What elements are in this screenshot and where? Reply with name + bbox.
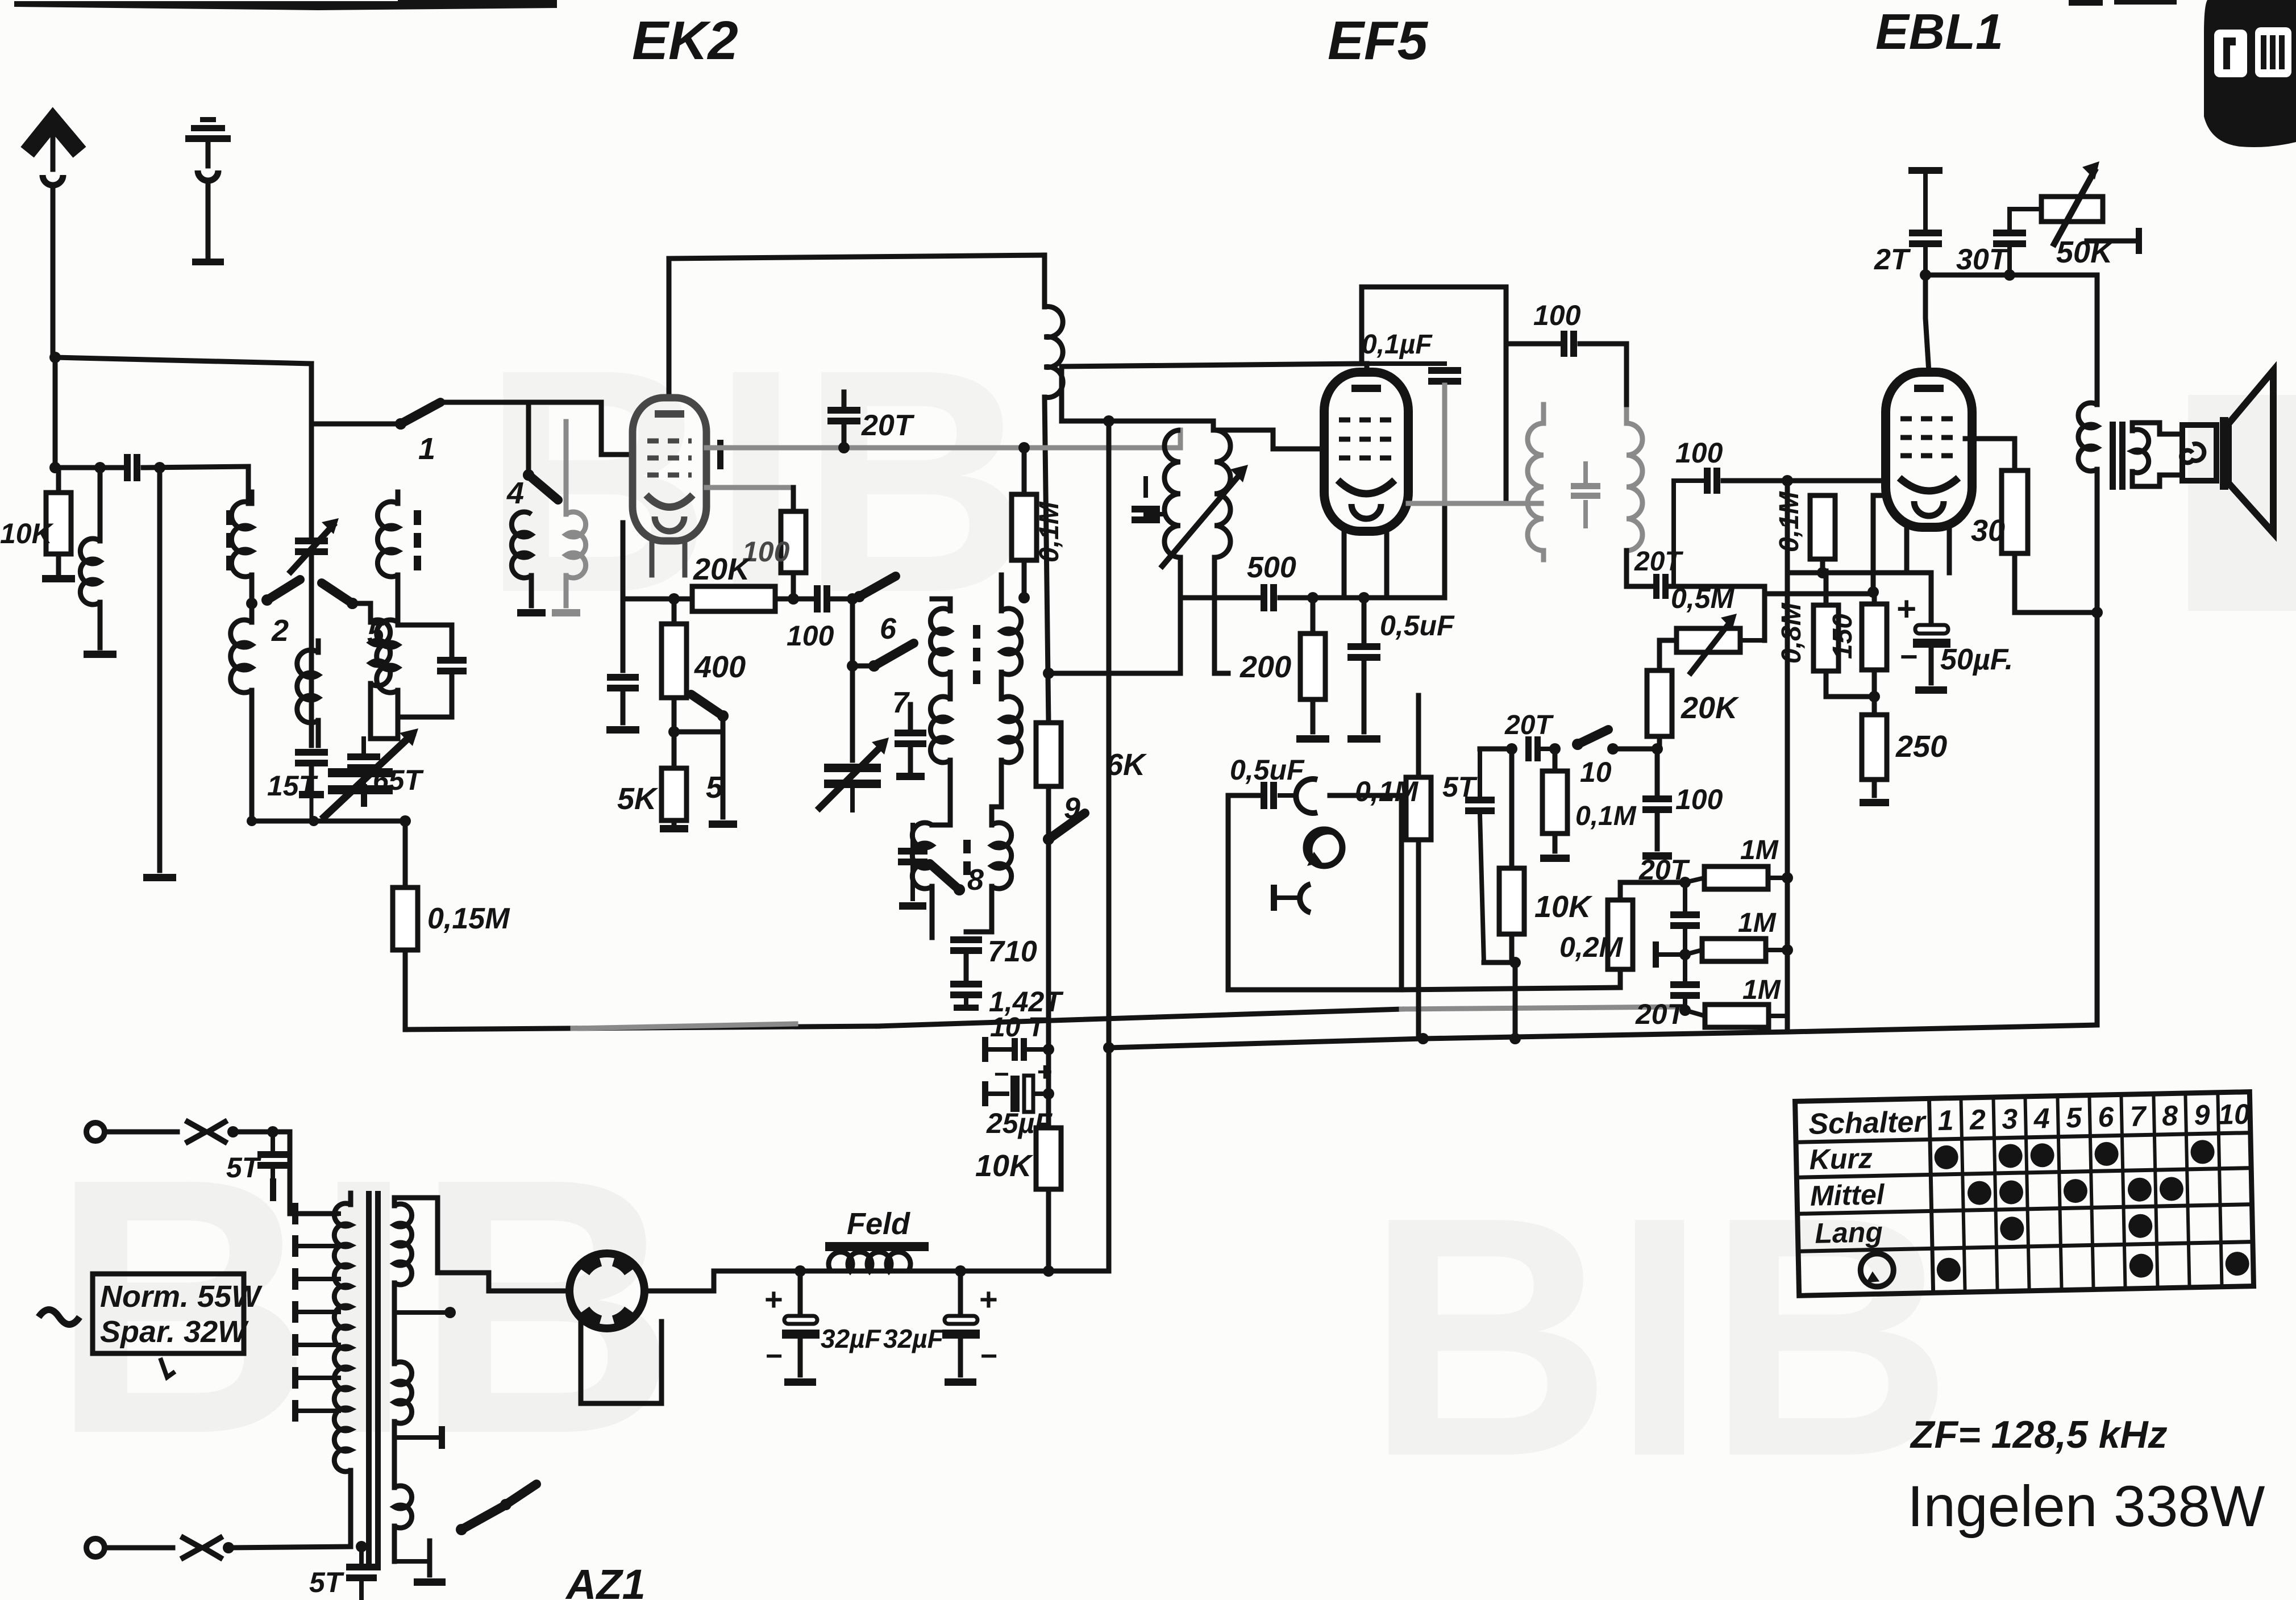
capacitor 32uF b	[958, 1271, 963, 1314]
transformer secondary	[394, 1204, 412, 1285]
coil L2 lower	[249, 603, 255, 622]
node IFT1 avc	[1043, 668, 1054, 679]
svg-text:710: 710	[988, 935, 1037, 968]
svg-text:10K: 10K	[1534, 890, 1593, 924]
capacitor 5T	[1465, 797, 1495, 803]
svg-text:1M: 1M	[1738, 908, 1777, 938]
svg-text:−: −	[993, 1059, 1009, 1089]
capacitor 20T agc2	[1670, 981, 1700, 988]
resistor 0,1M ebl	[1810, 495, 1835, 559]
svg-text:0,1M: 0,1M	[1575, 801, 1637, 831]
BIB publisher logo stamp	[2204, 0, 2296, 147]
osc coil left col	[932, 599, 950, 611]
tube AZ1	[569, 1253, 644, 1328]
resistor 30	[2002, 470, 2028, 553]
svg-text:Lang: Lang	[1815, 1216, 1883, 1249]
svg-text:5K: 5K	[617, 782, 659, 816]
capacitor 500	[1261, 584, 1267, 611]
coil L1 antenna shunt	[98, 468, 103, 541]
mains switch upper	[185, 1120, 206, 1143]
svg-text:10K: 10K	[975, 1149, 1034, 1183]
IFT1 coil primary	[1178, 430, 1183, 448]
resistor 0,15M	[403, 821, 408, 888]
capacitor 2T	[1908, 167, 1943, 174]
svg-text:4: 4	[2033, 1102, 2050, 1135]
svg-text:0,8M: 0,8M	[1777, 602, 1807, 664]
svg-text:20K: 20K	[693, 552, 752, 586]
svg-text:4: 4	[506, 476, 524, 510]
AZ1 filament loop	[581, 1322, 662, 1403]
wire V1b drop	[1062, 366, 1213, 421]
svg-text:8: 8	[967, 864, 984, 897]
scan border artifact top edge	[14, 1, 557, 10]
svg-text:400: 400	[694, 650, 746, 684]
speaker	[2220, 417, 2228, 490]
resistor 1M c	[1685, 1010, 1705, 1016]
svg-text:Spar. 32W: Spar. 32W	[100, 1315, 249, 1349]
wire ground drop x281	[157, 468, 163, 870]
svg-text:10K: 10K	[0, 518, 55, 549]
coil L4 upper coupled	[377, 502, 398, 577]
svg-text:6: 6	[2098, 1101, 2115, 1134]
trimmer 15T	[295, 749, 328, 756]
resistor 10K det	[1509, 749, 1515, 868]
svg-text:Schalter: Schalter	[1808, 1106, 1927, 1141]
svg-text:50K: 50K	[2056, 235, 2115, 269]
gray feed wire	[564, 422, 569, 499]
coil L6	[511, 512, 531, 578]
node after coupling cap	[831, 597, 850, 602]
svg-text:200: 200	[1239, 650, 1291, 684]
node under 400	[668, 726, 680, 738]
node antenna junction	[49, 352, 61, 363]
svg-text:Norm. 55W: Norm. 55W	[100, 1280, 263, 1314]
svg-text:5: 5	[2066, 1102, 2083, 1134]
det line	[1480, 747, 1509, 752]
band switch table	[1795, 1092, 2254, 1296]
capacitor 100 det	[1655, 749, 1660, 793]
capacitor 1,42T	[950, 981, 982, 988]
osc core dashes lower	[963, 840, 971, 853]
capacitor 30T	[1993, 230, 2026, 236]
resistor 10K decoupling	[1036, 1128, 1061, 1189]
node agc mid	[1679, 949, 1691, 960]
svg-text:Mittel: Mittel	[1810, 1178, 1885, 1212]
svg-text:0,1M: 0,1M	[1355, 776, 1419, 807]
bus H1 gray overlay	[573, 1024, 796, 1028]
mains terminal lower	[86, 1539, 105, 1557]
core dashes L4	[414, 510, 421, 525]
switch 5a	[347, 598, 358, 609]
resistor 5K	[672, 732, 677, 768]
svg-text:50µF.: 50µF.	[1940, 643, 2013, 676]
wire cathode line	[1280, 595, 1445, 601]
capacitor 100 grid	[1674, 478, 1702, 483]
resistor 250	[1872, 697, 1877, 715]
node band bottom	[247, 816, 257, 826]
transformer core	[366, 1191, 372, 1570]
selector blade b	[500, 1499, 511, 1510]
svg-text:5T: 5T	[226, 1152, 262, 1184]
EK2 side tab	[717, 440, 723, 469]
svg-text:10 T: 10 T	[990, 1013, 1047, 1043]
EF5 pins	[1342, 531, 1347, 598]
wire tone row	[1925, 275, 2097, 405]
headphone symbol	[1271, 885, 1277, 911]
node 05uF top	[1358, 592, 1370, 603]
wire 50uF feed	[1873, 573, 1931, 624]
capacitor pad osc	[908, 705, 913, 727]
wire to switch 1	[311, 422, 398, 427]
pot 50K	[2041, 197, 2103, 222]
variable capacitor tuning 1	[295, 537, 328, 544]
capacitor 0,5uF cathode	[1362, 598, 1367, 641]
svg-text:3: 3	[2002, 1103, 2018, 1135]
svg-text:8: 8	[2162, 1099, 2178, 1132]
svg-text:100: 100	[787, 620, 834, 652]
capacitor osc pad gnd	[910, 825, 915, 845]
switch 1	[395, 418, 406, 430]
switch 4	[526, 402, 531, 474]
resistor 10K antenna shunt	[56, 468, 61, 493]
secondary top out	[394, 1198, 568, 1291]
svg-text:100: 100	[1675, 784, 1723, 815]
node input row	[49, 462, 61, 473]
trimmer 65T	[361, 739, 366, 751]
wire mains upper	[233, 1132, 336, 1214]
capacitor 5T mains upper	[267, 1126, 278, 1137]
EF5 cathode line	[1180, 595, 1261, 601]
power rating box	[93, 1274, 244, 1353]
svg-text:20T: 20T	[1634, 547, 1683, 577]
wire EK2 grid top run	[669, 255, 1045, 259]
node H2 b	[1509, 1033, 1521, 1044]
mains terminal upper	[86, 1123, 105, 1141]
resistor 400	[672, 599, 677, 624]
capacitor 710	[950, 936, 982, 943]
svg-text:ZF= 128,5 kHz: ZF= 128,5 kHz	[1910, 1413, 2168, 1456]
gray screen line	[706, 485, 793, 490]
svg-text:20T: 20T	[861, 409, 915, 442]
svg-text:−: −	[765, 1340, 782, 1373]
mains switch lower	[181, 1536, 201, 1559]
wire input row	[55, 465, 124, 470]
pickup symbol	[1306, 830, 1342, 866]
svg-text:+: +	[1896, 590, 1916, 628]
coil L4 lower	[396, 575, 401, 622]
secondary tap a	[394, 1310, 447, 1315]
svg-text:7: 7	[892, 686, 910, 719]
bus H1 AVC	[405, 1026, 878, 1030]
wire EBL1 grid vertical	[1785, 481, 1790, 1032]
variable capacitor tuning 2	[328, 768, 393, 777]
wire band bottom to bus	[252, 819, 405, 824]
wire antenna lead-in	[51, 185, 56, 357]
capacitor band padding	[398, 625, 452, 655]
tube EK2	[633, 398, 706, 541]
svg-text:2: 2	[271, 614, 289, 648]
wire sw5b ground	[721, 732, 726, 817]
wire V2	[1107, 421, 1112, 1271]
svg-text:1M: 1M	[1740, 835, 1779, 865]
anode line EK2 gray	[706, 445, 1180, 451]
secondary tap c	[394, 1454, 398, 1455]
oscillator grid coil on V1	[1045, 307, 1063, 398]
EBL1 left pin	[1873, 493, 1882, 498]
svg-text:0,5M: 0,5M	[1671, 582, 1735, 614]
transformer primary	[334, 1203, 351, 1472]
earth terminal symbol	[200, 117, 216, 122]
wire V1 vertical	[1045, 397, 1049, 723]
svg-text:10: 10	[1580, 756, 1612, 788]
svg-text:7: 7	[2129, 1100, 2147, 1132]
svg-text:1: 1	[418, 432, 435, 466]
IFT1 coil secondary	[1211, 421, 1216, 430]
resistor 0,1M det	[1416, 695, 1421, 777]
wire down to input coils	[53, 357, 58, 468]
switch 8	[954, 884, 965, 895]
svg-text:0,1µF: 0,1µF	[1362, 330, 1433, 360]
resistor 0,1M b	[1553, 749, 1558, 771]
coil L7 gray	[566, 512, 586, 578]
tube EF5	[1324, 372, 1408, 531]
svg-text:EK2: EK2	[632, 10, 738, 71]
wire mains lower	[228, 1547, 351, 1548]
node 200 top	[1307, 592, 1318, 603]
wire osc tune	[850, 599, 855, 760]
IFT1 arrow	[1161, 472, 1242, 568]
IFT1 tuning cap	[1146, 512, 1163, 516]
wire tuning gang stem	[309, 364, 314, 537]
AZ1 output wire	[644, 1271, 800, 1291]
svg-text:+: +	[1037, 1057, 1052, 1086]
capacitor 20T agc1	[1683, 882, 1687, 909]
EF5 anode gray	[1408, 501, 1541, 506]
resistor 100 screen	[791, 488, 796, 511]
svg-text:6K: 6K	[1106, 748, 1147, 782]
svg-text:100: 100	[1675, 437, 1723, 469]
svg-text:1: 1	[1937, 1105, 1954, 1137]
variable capacitor osc	[824, 764, 881, 772]
osc core dashes	[973, 625, 980, 639]
transformer primary taps	[298, 1211, 339, 1216]
svg-text:AZ1: AZ1	[565, 1561, 646, 1600]
svg-text:20T: 20T	[1504, 710, 1554, 740]
node coil L1 top	[94, 462, 106, 473]
svg-text:0,5uF: 0,5uF	[1230, 754, 1305, 786]
node H2 a	[1417, 1033, 1429, 1044]
secondary tap b	[394, 1435, 436, 1440]
osc coil right lower	[992, 823, 1012, 889]
svg-text:6: 6	[880, 612, 897, 645]
wire switch1 to EK2	[447, 402, 631, 455]
EBL1 pins	[1904, 527, 1910, 573]
choke Feld	[825, 1242, 929, 1251]
svg-text:−: −	[980, 1340, 997, 1373]
svg-text:100: 100	[1533, 299, 1581, 331]
wire after series cap	[143, 466, 248, 503]
wire box bottom to 0,2M	[1401, 988, 1620, 990]
node band bottom b	[309, 816, 319, 826]
resistor 1M b	[1685, 950, 1702, 955]
resistor 150	[1872, 594, 1877, 604]
node V1 feld	[1043, 1265, 1054, 1277]
pot 0,5M	[1677, 628, 1740, 652]
secondary bottom gnd	[394, 1559, 430, 1564]
resistor 1M a	[1685, 878, 1704, 882]
EK2 pins	[650, 541, 655, 575]
capacitor 0,1uF	[1365, 364, 1370, 372]
svg-text:0,1M: 0,1M	[1034, 501, 1064, 562]
OT primary	[2078, 403, 2097, 471]
wire det gnd join	[1484, 960, 1515, 965]
capacitor 0,5uF pickup	[1228, 793, 1261, 798]
IFT2 cap gray	[1571, 483, 1600, 489]
svg-text:Ingelen 338W: Ingelen 338W	[1907, 1474, 2265, 1539]
wire EK2 top cap	[667, 259, 672, 398]
capacitor antenna series	[124, 454, 131, 481]
capacitor 20T det	[1525, 736, 1532, 761]
coil L5 lower	[371, 620, 390, 686]
capacitor 100 coupling	[814, 585, 821, 612]
switch 9	[1043, 834, 1054, 845]
svg-text:10: 10	[2218, 1098, 2251, 1131]
wire af node	[1762, 586, 1767, 640]
selector blade a	[456, 1524, 467, 1535]
svg-text:30T: 30T	[1956, 243, 2010, 276]
coil L2 upper coupled	[231, 502, 252, 577]
capacitor 100 B+	[1506, 341, 1558, 347]
svg-text:500: 500	[1247, 551, 1296, 584]
wire det top	[1478, 749, 1482, 797]
pickup jack arc	[1296, 779, 1317, 813]
resistor 0,8M	[1824, 571, 1829, 605]
osc coil left lower	[912, 823, 932, 889]
wire EBL1 anode	[1965, 439, 2015, 470]
node after cap	[154, 462, 165, 473]
wire pickup box	[1228, 795, 1401, 990]
node 20K left	[668, 593, 680, 605]
svg-text:2T: 2T	[1874, 243, 1911, 276]
switch 5b	[717, 710, 729, 722]
svg-text:0,2M: 0,2M	[1559, 931, 1624, 963]
speaker voice coil	[2182, 425, 2216, 481]
svg-text:32µF: 32µF	[821, 1324, 882, 1353]
svg-text:32µF: 32µF	[883, 1324, 945, 1353]
wire to switch 5b	[674, 717, 723, 732]
capacitor 25uF	[982, 1081, 988, 1106]
svg-text:2: 2	[1969, 1103, 1986, 1136]
switch 6	[854, 591, 865, 602]
wire antenna to tuning branch	[55, 357, 311, 364]
svg-text:Feld: Feld	[847, 1207, 910, 1241]
svg-text:5T: 5T	[1442, 771, 1478, 803]
switch 2	[249, 575, 255, 603]
EK2 grid2 vertical	[621, 523, 626, 670]
wire V1 feld join	[1049, 1269, 1109, 1274]
node 0,15M top	[400, 815, 411, 827]
wire feld line	[800, 1269, 1049, 1274]
svg-text:0,5uF: 0,5uF	[1380, 610, 1455, 641]
resistor 0,1M osc	[1018, 442, 1030, 453]
coil L3 lower	[297, 650, 318, 723]
svg-text:1M: 1M	[1742, 975, 1781, 1005]
svg-text:5T: 5T	[309, 1566, 345, 1598]
svg-text:EF5: EF5	[1328, 10, 1429, 71]
IFT2 secondary gray	[1627, 423, 1642, 551]
capacitor EK2 cathode	[607, 674, 639, 681]
svg-text:9: 9	[1064, 792, 1080, 825]
svg-text:+: +	[764, 1281, 783, 1317]
IFT2 primary gray	[1528, 423, 1544, 551]
wire EBL1 topcap	[1925, 275, 1929, 372]
capacitor 20T osc	[842, 392, 847, 405]
OT core	[2110, 422, 2116, 490]
wire top box EF5 grid	[1062, 287, 1506, 503]
core dashes L2	[226, 510, 234, 525]
svg-text:20K: 20K	[1681, 691, 1740, 725]
resistor 6K on V1	[1036, 723, 1061, 786]
capacitor 5T mains lower	[356, 1541, 367, 1552]
svg-text:250: 250	[1895, 730, 1947, 764]
node feld left	[795, 1265, 806, 1277]
switch 10	[1572, 739, 1583, 750]
capacitor 50uF	[1915, 625, 1948, 634]
antenna symbol	[27, 120, 80, 152]
osc coil right col	[999, 575, 1004, 611]
resistor 200	[1311, 598, 1316, 634]
svg-text:0,1M: 0,1M	[1774, 491, 1804, 552]
node feld right	[955, 1265, 966, 1277]
resistor 20K	[623, 597, 692, 602]
svg-text:20T: 20T	[1635, 998, 1687, 1030]
EF5 grid wire	[1214, 430, 1324, 449]
wire 0,2M top	[1620, 880, 1685, 885]
ground under x281	[143, 874, 176, 881]
svg-text:9: 9	[2194, 1099, 2210, 1131]
svg-text:EBL1: EBL1	[1875, 3, 2003, 60]
node V2 top	[1103, 415, 1114, 427]
svg-text:30: 30	[1971, 514, 2005, 548]
mains tilde	[39, 1310, 80, 1324]
capacitor 32uF a	[798, 1271, 803, 1314]
resistor 20K af	[1659, 640, 1677, 670]
svg-text:−: −	[1899, 640, 1918, 674]
bus H2 ground return	[1103, 1042, 1114, 1053]
resistor 0,2M	[1618, 882, 1623, 900]
svg-text:Kurz: Kurz	[1809, 1143, 1873, 1176]
svg-text:150: 150	[1828, 614, 1858, 659]
node speaker return	[2091, 607, 2103, 618]
capacitor 10T het	[982, 1037, 988, 1062]
svg-text:0,15M: 0,15M	[427, 902, 510, 935]
switch 7	[868, 660, 880, 672]
capacitor 20T af	[1627, 584, 1653, 589]
svg-text:+: +	[979, 1281, 997, 1317]
OT secondary	[2132, 430, 2149, 473]
wire ebl grid row	[1787, 570, 1873, 576]
tube EBL1	[1886, 372, 1972, 527]
